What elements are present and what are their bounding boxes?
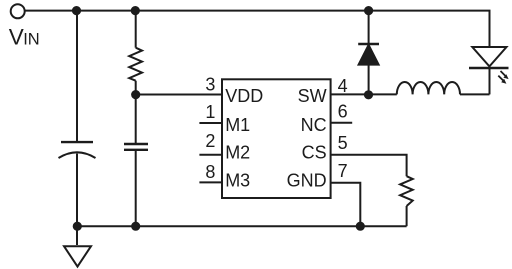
svg-text:GND: GND	[287, 171, 327, 191]
svg-text:M1: M1	[225, 115, 250, 135]
svg-text:M2: M2	[225, 142, 250, 162]
svg-text:CS: CS	[302, 142, 327, 162]
svg-text:1: 1	[205, 102, 215, 122]
svg-text:7: 7	[338, 161, 348, 181]
svg-text:2: 2	[205, 131, 215, 151]
svg-text:IN: IN	[23, 30, 40, 48]
svg-text:NC: NC	[301, 115, 327, 135]
svg-text:6: 6	[338, 101, 348, 121]
svg-text:4: 4	[338, 76, 348, 96]
svg-text:3: 3	[205, 74, 215, 94]
svg-text:V: V	[9, 24, 24, 49]
svg-text:VDD: VDD	[225, 86, 263, 106]
svg-text:SW: SW	[298, 86, 327, 106]
svg-text:5: 5	[338, 133, 348, 153]
svg-text:M3: M3	[225, 171, 250, 191]
svg-text:8: 8	[205, 162, 215, 182]
